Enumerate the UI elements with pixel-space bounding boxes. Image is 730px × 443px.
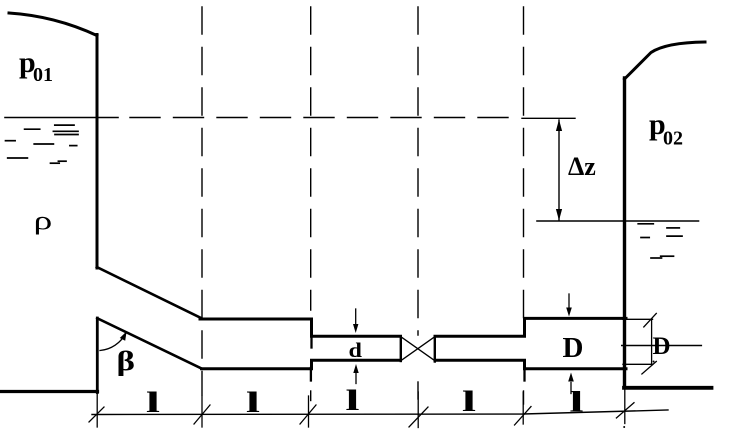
- stray dot bottom: [623, 426, 625, 428]
- beta angle arc: [100, 333, 126, 350]
- outlet D slash top: [644, 313, 657, 327]
- d dimension top arrow: [355, 309, 357, 325]
- water hatch marks tank A: [6, 125, 79, 163]
- tank A converging slope upper: [97, 267, 201, 318]
- outlet D slash bottom: [642, 361, 656, 374]
- svg-text:02: 02: [663, 128, 683, 150]
- label l 1: [146, 386, 160, 419]
- D dimension top arrow: [568, 294, 570, 308]
- inlet triangle hypotenuse: [97, 318, 201, 368]
- section dashed line 3 (valve axis): [417, 7, 419, 335]
- delta-z top arrowhead: [556, 120, 562, 132]
- dimension tick 2: [201, 396, 203, 427]
- label p01: [19, 46, 53, 86]
- tank B top wall curve: [625, 42, 706, 79]
- delta-z top reference line: [522, 117, 575, 119]
- liquid level B: [537, 220, 699, 222]
- valve left seat: [400, 336, 402, 361]
- svg-text:β: β: [117, 346, 135, 376]
- pipe bottom wall: wide section 1, step, narrow section to valve: [202, 360, 401, 369]
- dimension tick 5: [522, 392, 524, 424]
- stray dot: [653, 361, 655, 363]
- svg-text:l: l: [246, 386, 260, 419]
- label rho: [34, 207, 53, 236]
- bottom dimension line: [92, 410, 668, 415]
- label l 3: [345, 384, 359, 417]
- svg-text:l: l: [146, 386, 160, 419]
- label d: [349, 338, 363, 361]
- D dimension bottom arrow: [570, 383, 572, 394]
- tank B wall: [623, 78, 626, 388]
- outlet D dimension extension bottom: [623, 363, 653, 365]
- step overshoot at first contraction bottom: [310, 368, 312, 381]
- svg-text:D: D: [653, 333, 671, 360]
- dimension tick 1: [96, 394, 98, 428]
- tank B floor: [624, 386, 712, 390]
- liquid level A dashed extension: [130, 117, 509, 119]
- outlet centerline: [622, 345, 702, 347]
- svg-text:01: 01: [33, 64, 53, 86]
- section dashed line 4: [523, 7, 525, 318]
- pipe top wall: narrow after valve, step, wide D section: [435, 318, 626, 336]
- dimension tick 4: [417, 392, 419, 428]
- delta-z bottom arrowhead: [556, 209, 562, 221]
- water hatch marks tank B: [638, 224, 682, 258]
- svg-text:l: l: [569, 386, 583, 419]
- dimension tick 3: [308, 396, 310, 427]
- outlet D dimension vertical line: [651, 320, 653, 365]
- label l 5: [569, 386, 583, 419]
- svg-text:ρ: ρ: [34, 207, 53, 236]
- tank A floor: [0, 390, 98, 393]
- delta-z dimension line: [558, 120, 560, 220]
- d dimension bottom arrow: [355, 372, 357, 384]
- section dashed line 1: [201, 7, 203, 395]
- label l 4: [462, 385, 476, 418]
- tank A top wall curve: [9, 13, 97, 36]
- valve right seat: [434, 336, 436, 361]
- tank A right wall: [96, 35, 99, 269]
- label p02: [649, 108, 683, 149]
- svg-text:Δz: Δz: [568, 152, 596, 181]
- inlet triangle vertical edge: [96, 318, 99, 393]
- pipe top wall: wide section 1, step, narrow section to valve: [200, 319, 401, 336]
- outlet D dimension extension top: [623, 318, 653, 320]
- svg-text:d: d: [349, 338, 363, 361]
- step overshoot at first contraction top: [310, 336, 312, 348]
- svg-text:l: l: [345, 384, 359, 417]
- section dashed line 2: [310, 7, 312, 310]
- svg-text:D: D: [563, 332, 584, 364]
- label l 2: [246, 386, 260, 419]
- liquid level A solid: [5, 117, 118, 119]
- step overshoot at expansion bottom: [523, 369, 525, 381]
- label beta: [117, 346, 135, 376]
- pipe bottom wall: narrow after valve, step, wide D section: [435, 360, 626, 369]
- svg-text:l: l: [462, 385, 476, 418]
- dimension tick 6: [624, 388, 626, 424]
- beta arc arrowhead: [120, 331, 127, 340]
- valve bowtie diagonals: [401, 337, 435, 361]
